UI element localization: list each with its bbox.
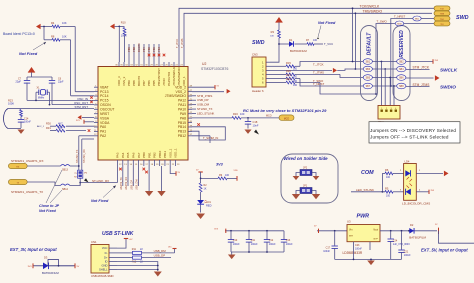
svg-text:R30: R30 (46, 121, 51, 125)
svg-text:UART2_RX: UART2_RX (125, 177, 128, 190)
svg-text:D+: D+ (104, 256, 108, 260)
svg-text:BAT60JFILM: BAT60JFILM (290, 49, 307, 53)
svg-text:PA7: PA7 (137, 152, 141, 158)
svg-text:100nF: 100nF (355, 248, 362, 251)
svg-text:PB9: PB9 (127, 47, 131, 52)
svg-text:Vout: Vout (373, 229, 378, 232)
svg-text:Not Fixed: Not Fixed (39, 209, 57, 213)
svg-text:10K: 10K (62, 21, 67, 25)
svg-text:STLINK_TX: STLINK_TX (197, 107, 212, 111)
svg-text:CN3: CN3 (252, 53, 258, 57)
svg-text:JTDO: JTDO (162, 78, 166, 86)
svg-text:PA6: PA6 (132, 152, 136, 158)
svg-text:PB1: PB1 (147, 152, 151, 158)
svg-text:GND: GND (102, 264, 108, 268)
svg-text:PB5: PB5 (152, 80, 156, 86)
svg-text:PB9: PB9 (127, 80, 131, 86)
svg-text:PB15: PB15 (178, 121, 186, 125)
svg-text:22pF: 22pF (16, 81, 22, 84)
svg-text:100: 100 (386, 194, 391, 197)
svg-text:RESERVED: RESERVED (399, 30, 405, 58)
svg-text:VDDA: VDDA (100, 121, 110, 125)
svg-text:PB7: PB7 (142, 47, 146, 52)
svg-text:R21: R21 (286, 73, 291, 77)
svg-text:PB8: PB8 (132, 80, 136, 86)
svg-text:VSS_3: VSS_3 (122, 76, 126, 86)
svg-text:STM_JTMS: STM_JTMS (413, 83, 430, 87)
svg-text:PB13: PB13 (178, 130, 186, 134)
svg-text:ADC_1: ADC_1 (37, 125, 45, 128)
svg-text:T_JTCK: T_JTCK (313, 62, 324, 66)
svg-text:MCO: MCO (266, 115, 272, 118)
svg-text:T_SWIM_IN: T_SWIM_IN (203, 136, 218, 140)
svg-text:100nF: 100nF (269, 243, 276, 246)
svg-text:JTCK/SWCLK: JTCK/SWCLK (172, 67, 176, 86)
svg-text:Jumpers ON --> DISCOVERY Sele: Jumpers ON --> DISCOVERY Selected (370, 128, 456, 133)
svg-text:PA0: PA0 (100, 125, 106, 129)
svg-text:RC Must be very close to STM32: RC Must be very close to STM32F101 pin 2… (243, 108, 327, 113)
svg-text:3V3: 3V3 (216, 163, 224, 167)
svg-text:BOOT0: BOOT0 (137, 43, 141, 52)
svg-text:Not Fixed: Not Fixed (19, 51, 38, 56)
svg-text:2: 2 (386, 108, 387, 110)
svg-text:T_JTMS: T_JTMS (181, 38, 184, 48)
svg-text:SB1: SB1 (366, 62, 371, 64)
svg-text:SB11: SB11 (415, 18, 419, 20)
svg-text:JP2: JP2 (303, 167, 308, 170)
svg-text:C11: C11 (251, 239, 256, 242)
svg-text:Jumpers OFF --> ST-LINK Select: Jumpers OFF --> ST-LINK Selected (370, 135, 449, 140)
svg-text:R31: R31 (46, 126, 51, 130)
svg-text:10K: 10K (62, 34, 67, 38)
svg-text:STLINK_RX: STLINK_RX (83, 149, 86, 163)
svg-text:R20: R20 (286, 69, 291, 73)
svg-text:100: 100 (225, 174, 230, 177)
svg-text:USB_DM: USB_DM (136, 180, 139, 190)
svg-text:JTMS/SWDIO: JTMS/SWDIO (165, 94, 187, 98)
svg-text:VSSA: VSSA (100, 116, 110, 120)
svg-text:C13: C13 (286, 239, 291, 242)
svg-text:LD_BICOLOR_CMS: LD_BICOLOR_CMS (402, 201, 430, 205)
svg-text:LED_STLINK: LED_STLINK (197, 111, 214, 115)
svg-text:R10: R10 (121, 20, 126, 24)
svg-text:VDD_3: VDD_3 (117, 76, 121, 86)
svg-text:R11: R11 (132, 248, 137, 251)
svg-text:SB8: SB8 (399, 86, 404, 88)
svg-text:PC13: PC13 (100, 90, 109, 94)
svg-text:SB14: SB14 (62, 188, 69, 191)
svg-text:SB7: SB7 (366, 86, 371, 88)
svg-text:NRST: NRST (100, 112, 109, 116)
svg-text:PWR: PWR (357, 214, 370, 220)
svg-text:BYP: BYP (374, 239, 379, 241)
svg-text:USB-MINI-B-SMD: USB-MINI-B-SMD (91, 274, 114, 278)
svg-text:JP1: JP1 (303, 185, 308, 188)
svg-text:100nF: 100nF (323, 250, 330, 253)
svg-text:BAT60JFILM: BAT60JFILM (409, 235, 426, 239)
svg-text:100: 100 (293, 84, 298, 87)
svg-text:PB2: PB2 (153, 152, 157, 158)
svg-text:3: 3 (391, 108, 392, 110)
svg-text:TCK/SWCLK: TCK/SWCLK (360, 5, 381, 9)
svg-text:4: 4 (395, 108, 396, 110)
svg-text:SHELL: SHELL (99, 268, 108, 272)
svg-text:VBAT: VBAT (100, 85, 109, 89)
svg-text:C18: C18 (253, 120, 258, 124)
svg-text:SWCLK: SWCLK (440, 68, 458, 73)
svg-text:SB2: SB2 (399, 62, 404, 64)
svg-text:TMS: TMS (440, 14, 445, 16)
svg-text:SB3: SB3 (366, 69, 371, 71)
svg-text:SB10: SB10 (397, 23, 402, 25)
svg-text:T_JTCK: T_JTCK (176, 39, 179, 49)
svg-text:PB14: PB14 (178, 125, 186, 129)
svg-text:8MHz: 8MHz (38, 97, 45, 100)
svg-text:Not Fixed: Not Fixed (318, 21, 336, 25)
svg-text:PC15: PC15 (100, 99, 109, 103)
svg-text:1K5: 1K5 (168, 247, 171, 249)
svg-text:LD3985M33R: LD3985M33R (343, 251, 363, 255)
svg-text:USB_DP: USB_DP (154, 254, 166, 258)
svg-text:STLINK_TX: STLINK_TX (76, 149, 79, 163)
svg-text:VDD: VDD (234, 170, 239, 172)
svg-text:R8: R8 (51, 34, 55, 38)
svg-text:LD4: LD4 (405, 160, 410, 164)
svg-text:Close to JP: Close to JP (39, 204, 60, 208)
svg-text:EXT_5V, Input or Ouput: EXT_5V, Input or Ouput (421, 248, 468, 253)
svg-text:4K7: 4K7 (58, 121, 63, 125)
svg-text:SWDIO: SWDIO (440, 85, 456, 90)
svg-text:STM32F103CBT6: STM32F103CBT6 (201, 67, 228, 71)
svg-text:JP4: JP4 (84, 173, 87, 175)
svg-text:EXT_3V, Input or Ouput: EXT_3V, Input or Ouput (10, 247, 57, 252)
svg-text:R6: R6 (385, 168, 389, 172)
svg-text:100nF: 100nF (251, 243, 258, 246)
svg-text:OSCIN: OSCIN (100, 103, 111, 107)
svg-text:PB5: PB5 (152, 47, 156, 52)
svg-text:SWD: SWD (252, 40, 265, 46)
svg-text:U3: U3 (347, 220, 351, 224)
svg-text:D1: D1 (289, 38, 293, 42)
svg-text:STM32F1_USART1_RX: STM32F1_USART1_RX (11, 159, 43, 163)
svg-text:VDD_1: VDD_1 (174, 148, 178, 158)
svg-text:1: 1 (381, 108, 382, 110)
svg-text:ST-LINK_RX: ST-LINK_RX (92, 179, 109, 183)
svg-text:USB_DP: USB_DP (130, 180, 133, 190)
svg-text:Header 6: Header 6 (252, 89, 264, 93)
svg-text:100nF: 100nF (286, 243, 293, 246)
svg-text:R5: R5 (385, 186, 389, 190)
svg-text:SB5: SB5 (366, 78, 371, 80)
svg-text:T_VCC: T_VCC (324, 42, 333, 46)
svg-text:Not Fixed: Not Fixed (91, 199, 109, 203)
svg-text:PA11: PA11 (178, 103, 186, 107)
svg-text:SWD: SWD (456, 15, 469, 21)
svg-text:USB_DP: USB_DP (197, 98, 209, 102)
svg-text:10nF: 10nF (253, 124, 259, 128)
svg-text:+5V: +5V (129, 239, 133, 241)
svg-text:BAT60JFILM: BAT60JFILM (42, 271, 59, 275)
svg-text:PB6: PB6 (147, 47, 151, 52)
svg-text:PB8: PB8 (132, 47, 136, 52)
svg-text:100K: 100K (8, 102, 14, 106)
svg-text:VCC: VCC (102, 246, 108, 250)
svg-text:STM_JTMS: STM_JTMS (197, 94, 212, 98)
svg-text:CN1: CN1 (91, 240, 97, 244)
svg-text:10K: 10K (270, 36, 274, 38)
svg-text:MCO: MCO (284, 118, 290, 120)
svg-text:TDO: TDO (440, 19, 445, 21)
svg-text:1K: 1K (204, 188, 207, 191)
svg-text:PB0: PB0 (142, 152, 146, 158)
svg-text:22pF: 22pF (58, 81, 64, 84)
svg-text:DEFAULT: DEFAULT (367, 32, 373, 56)
svg-text:INH: INH (349, 236, 353, 238)
svg-text:TCK: TCK (440, 9, 445, 11)
svg-text:R16: R16 (233, 112, 238, 116)
svg-text:PB7: PB7 (142, 80, 146, 86)
svg-text:VDD_1: VDD_1 (182, 76, 186, 86)
svg-text:PA2: PA2 (100, 134, 106, 138)
svg-text:Board Ident: PC13=0: Board Ident: PC13=0 (3, 32, 35, 36)
svg-text:SB13: SB13 (62, 169, 69, 172)
svg-text:PA3: PA3 (116, 152, 120, 158)
svg-text:PC14: PC14 (100, 94, 109, 98)
svg-text:PA8: PA8 (180, 116, 186, 120)
svg-text:SB6: SB6 (399, 78, 404, 80)
svg-text:UART2_TX: UART2_TX (120, 177, 123, 190)
svg-text:JTMS/SWDIO: JTMS/SWDIO (177, 67, 181, 86)
svg-text:D3: D3 (44, 256, 48, 260)
svg-text:TDI: TDI (440, 24, 444, 26)
svg-text:VSS_1: VSS_1 (168, 148, 172, 158)
svg-text:100: 100 (386, 176, 391, 179)
svg-text:PA10: PA10 (178, 108, 186, 112)
svg-text:VSS_2: VSS_2 (175, 90, 186, 94)
svg-text:STM_RST: STM_RST (75, 105, 89, 109)
svg-text:USB_DM: USB_DM (154, 249, 167, 253)
svg-text:ID: ID (105, 260, 108, 264)
svg-text:100nF: 100nF (233, 243, 240, 246)
svg-text:PA15/JTDI: PA15/JTDI (167, 72, 171, 86)
svg-text:PB10: PB10 (158, 150, 162, 158)
svg-text:T_JTMS: T_JTMS (313, 71, 324, 75)
svg-text:SB4: SB4 (399, 69, 404, 71)
svg-text:U2: U2 (202, 62, 206, 66)
svg-text:TMS/SWDIO: TMS/SWDIO (363, 10, 383, 14)
svg-text:100: 100 (313, 39, 318, 42)
svg-text:C10: C10 (233, 239, 238, 242)
svg-text:USB ST-LINK: USB ST-LINK (102, 231, 134, 237)
svg-text:R15: R15 (286, 61, 291, 65)
svg-text:PB4: PB4 (157, 47, 161, 52)
svg-text:D-: D- (105, 251, 108, 255)
svg-text:PA9: PA9 (180, 112, 186, 116)
svg-text:PA12: PA12 (178, 99, 186, 103)
svg-text:RED: RED (206, 204, 212, 208)
svg-text:PA1: PA1 (100, 130, 106, 134)
svg-text:PB6: PB6 (147, 80, 151, 86)
svg-text:PB12: PB12 (178, 134, 186, 138)
svg-text:OSCOUT: OSCOUT (100, 108, 115, 112)
svg-text:4K7: 4K7 (58, 126, 63, 130)
svg-text:STM_JTCK: STM_JTCK (413, 65, 430, 69)
svg-text:PA4: PA4 (121, 152, 125, 158)
svg-text:BOOT0: BOOT0 (137, 75, 141, 86)
svg-text:R3: R3 (271, 30, 275, 34)
svg-text:PA5: PA5 (126, 152, 130, 158)
svg-text:COM: COM (361, 170, 374, 176)
svg-text:STM32F1_USART1_TX: STM32F1_USART1_TX (11, 190, 43, 194)
svg-text:100nF: 100nF (404, 254, 411, 257)
svg-text:LED_STLINK: LED_STLINK (356, 188, 374, 192)
svg-text:R22: R22 (286, 77, 291, 81)
svg-text:100nF: 100nF (24, 121, 31, 124)
svg-text:Wired on Solder Side: Wired on Solder Side (284, 156, 329, 161)
svg-text:T_NRST: T_NRST (394, 15, 405, 19)
svg-text:PB4/JNTRST: PB4/JNTRST (157, 68, 161, 86)
svg-text:C12: C12 (269, 239, 274, 242)
svg-text:D2: D2 (410, 223, 414, 227)
svg-text:T_SWO: T_SWO (313, 79, 324, 83)
svg-text:PB11: PB11 (163, 151, 167, 158)
svg-text:R4: R4 (51, 21, 55, 25)
svg-text:LD1: LD1 (206, 200, 211, 204)
svg-text:USB_DM: USB_DM (197, 103, 210, 107)
